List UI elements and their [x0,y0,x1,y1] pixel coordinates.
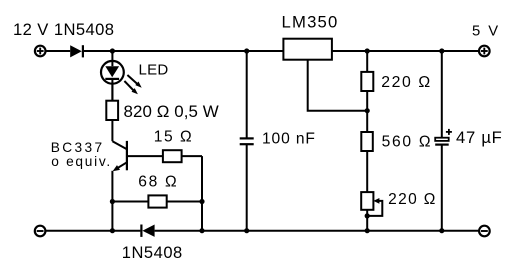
svg-text:100 nF: 100 nF [262,131,315,148]
svg-text:220 Ω: 220 Ω [388,191,435,208]
svg-text:820 Ω 0,5 W: 820 Ω 0,5 W [124,102,219,121]
svg-text:LM350: LM350 [282,12,338,31]
svg-text:68 Ω: 68 Ω [138,173,177,190]
svg-text:1N5408: 1N5408 [122,244,182,262]
svg-text:5 V: 5 V [472,23,498,39]
svg-text:o equiv.: o equiv. [51,154,110,169]
svg-text:12 V 1N5408: 12 V 1N5408 [13,20,114,39]
svg-text:47 µF: 47 µF [456,128,502,147]
svg-text:BC337: BC337 [51,140,102,155]
svg-text:15 Ω: 15 Ω [154,128,192,145]
svg-text:LED: LED [139,61,169,78]
svg-text:220 Ω: 220 Ω [381,74,430,91]
svg-text:560 Ω: 560 Ω [382,134,431,151]
